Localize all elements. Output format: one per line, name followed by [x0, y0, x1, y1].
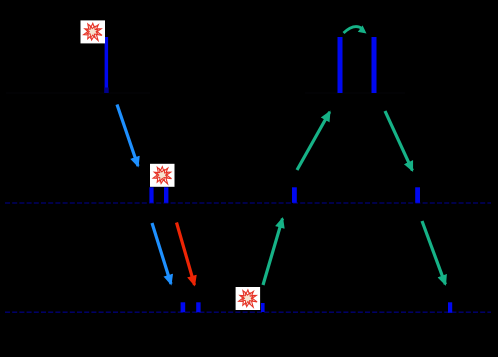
emission flash icon bottom-center: [236, 287, 261, 310]
photon line left of top-middle pair: [338, 37, 343, 93]
emission flash icon middle-left: [150, 164, 175, 187]
pump photon line dark base: [104, 88, 109, 94]
emission arrow (red, middle-left down): [177, 223, 195, 285]
absorption arrow (green, bottom-center up): [263, 219, 283, 285]
tick on middle level (center): [292, 187, 297, 203]
curved transfer arrowhead: [358, 25, 367, 33]
emission arrow (green, right down to bottom): [422, 221, 445, 284]
middle level line (dark navy, dashed, full width): [5, 202, 491, 204]
tick on bottom level (center, right of burst): [261, 303, 265, 312]
upper-middle level line (black, nearly invisible): [305, 92, 405, 94]
pump photon line (top-left tall blue line): [105, 37, 109, 88]
absorption arrow (green, center up to top): [297, 112, 330, 170]
tick on bottom level (far right): [448, 302, 452, 313]
tick pair on bottom level (left) 2: [196, 302, 200, 312]
upper-left level line (black, nearly invisible): [6, 92, 150, 94]
tick on middle level (right): [415, 187, 420, 203]
curved transfer arrow (green arc between top-middle lines): [344, 27, 363, 33]
photon line right of top-middle pair: [372, 37, 377, 93]
tick pair on middle level (left) 2: [164, 187, 168, 203]
emission arrow (light blue, middle-left down): [152, 223, 171, 284]
tick pair on middle level (left) 1: [149, 187, 153, 203]
excitation flash icon top-left: [81, 20, 106, 43]
emission arrow (green, top-right down): [385, 111, 412, 171]
tick pair on bottom level (left) 1: [181, 302, 186, 312]
relaxation arrow (light blue, top-left down): [117, 105, 138, 167]
bottom level line (dark navy, dashed, full width): [5, 311, 491, 313]
